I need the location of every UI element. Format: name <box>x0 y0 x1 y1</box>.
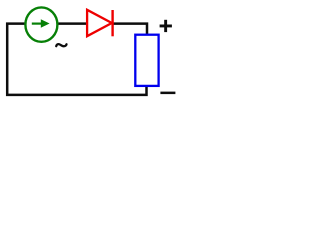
diode D1 cathode bar <box>111 10 113 36</box>
AC tilde symbol <box>56 44 66 46</box>
diode D1 (red) triangle <box>87 10 112 36</box>
load resistor R (blue rectangle) <box>135 35 158 86</box>
minus label <box>160 92 175 95</box>
wire source right terminal to diode anode <box>58 22 86 25</box>
AC current source I1 (green circle with right arrow) <box>25 7 57 41</box>
plus label <box>160 20 172 32</box>
wire diode cathode to top-right corner, down to load top <box>113 24 147 35</box>
wire left loop: source left terminal, down, along bottom, up to load bottom <box>7 24 146 95</box>
current source arrow <box>32 19 50 27</box>
